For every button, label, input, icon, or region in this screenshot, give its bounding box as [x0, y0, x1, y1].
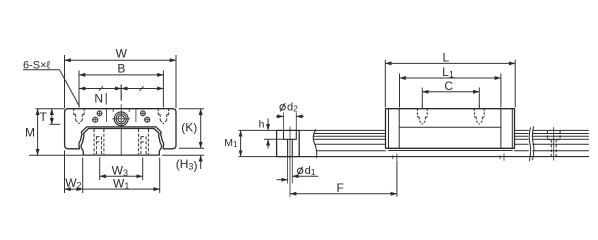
svg-text:h: h	[259, 119, 265, 131]
svg-text:L1: L1	[442, 65, 454, 80]
nipple hole wall lines	[112, 109, 114, 112]
block tapped hole left (hidden)	[417, 109, 427, 125]
tapped hole S left (hidden)	[74, 109, 85, 124]
dimension N	[105, 93, 107, 105]
svg-text:M1: M1	[224, 137, 238, 149]
dimension B	[78, 71, 80, 108]
carriage block side view	[386, 109, 515, 149]
svg-text:(H3): (H3)	[176, 157, 198, 173]
svg-text:L: L	[442, 50, 449, 64]
rail cross-section	[81, 129, 162, 156]
svg-text:T: T	[40, 110, 48, 124]
svg-text:B: B	[117, 62, 125, 76]
dimension W2 and W1	[64, 151, 66, 194]
block tapped hole right (hidden)	[474, 109, 484, 125]
rail mounting hole right (hidden)	[547, 130, 560, 156]
break line pair	[529, 128, 530, 161]
dimension M	[29, 154, 83, 156]
svg-text:N: N	[94, 91, 103, 105]
grease nipple port: concentric circles at block center	[114, 112, 128, 126]
svg-text:F: F	[337, 181, 344, 195]
break line	[313, 130, 317, 158]
svg-text:C: C	[444, 79, 453, 93]
through hole phi-d1 walls	[287, 139, 289, 156]
dimension L1	[399, 74, 401, 108]
center line of section	[120, 85, 122, 101]
nipple port crosshair horizontal	[112, 118, 130, 120]
rail hole centerlines under block	[396, 154, 398, 161]
svg-text:M: M	[25, 125, 35, 139]
rail bolt hole right (hidden)	[139, 129, 149, 154]
dimension W	[64, 55, 66, 108]
hole centerline	[289, 127, 291, 161]
svg-text:d2: d2	[287, 102, 298, 114]
svg-text:W2: W2	[65, 176, 81, 191]
dimension K	[179, 108, 204, 110]
svg-text:W1: W1	[113, 177, 129, 192]
dimension C	[421, 88, 423, 108]
rail end section piece	[277, 130, 300, 156]
ball circuit circles left	[97, 111, 102, 116]
ball circuit circles right	[141, 111, 146, 116]
dimension T	[36, 108, 65, 110]
tapped hole S right (hidden)	[158, 109, 169, 124]
rail bolt hole left (hidden)	[94, 129, 104, 154]
carriage block outline with rail cutout	[65, 109, 176, 149]
dimension phi-d1	[298, 167, 303, 175]
rail segment left of block	[299, 129, 315, 131]
rail segment right of block	[515, 130, 529, 150]
rail groove lines left segment	[313, 130, 385, 150]
dimension phi-d2	[280, 103, 285, 111]
svg-text:(K): (K)	[181, 120, 197, 134]
svg-text:W: W	[116, 47, 128, 61]
rail lines right of break	[532, 130, 588, 150]
counterbore phi-d2 walls	[283, 113, 285, 131]
svg-text:d1: d1	[305, 165, 316, 177]
rail bottom line continuous	[277, 156, 589, 158]
dimension H3	[162, 154, 204, 156]
dimension W3	[99, 158, 101, 181]
dimension L	[384, 60, 386, 108]
symmetric B/2 dimension line with equality slashes	[79, 88, 163, 90]
